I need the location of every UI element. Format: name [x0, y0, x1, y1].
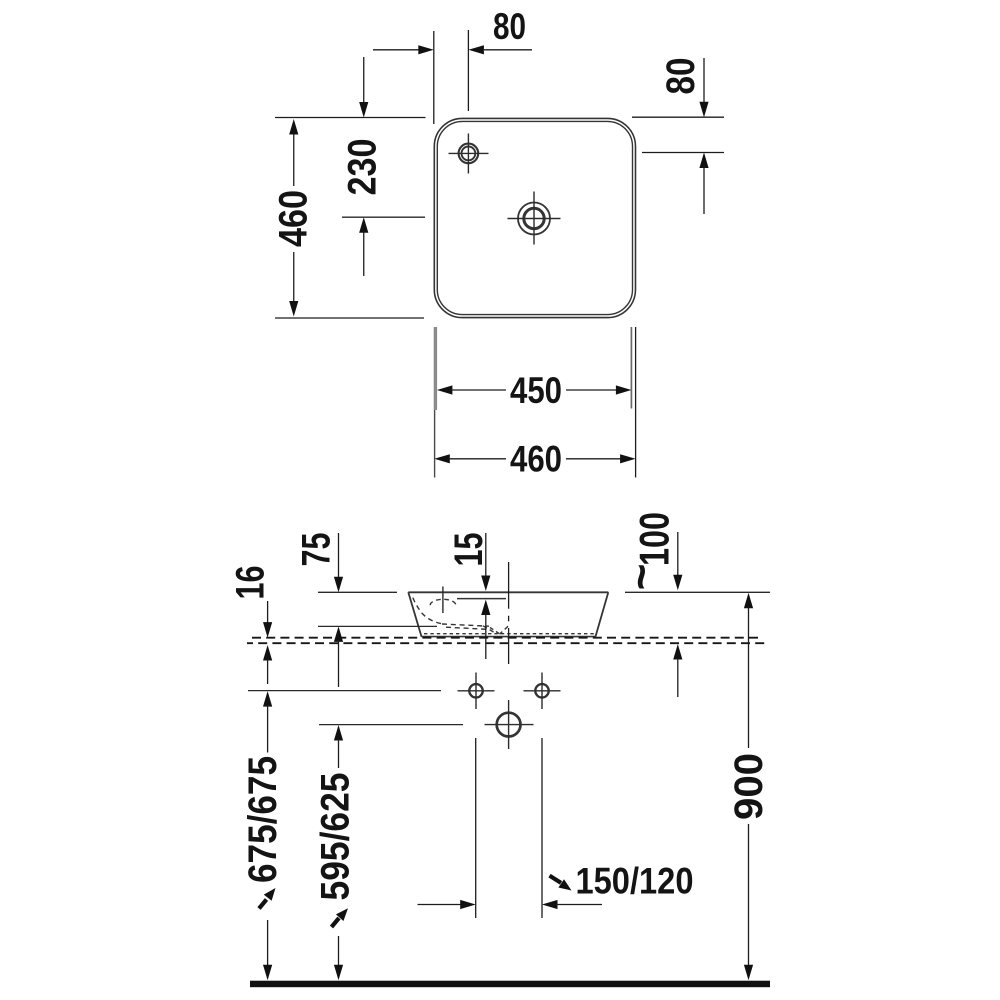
- drain outlet circle: [497, 713, 521, 737]
- svg-text:80: 80: [493, 6, 526, 47]
- dim 16: lower arrowhead: [263, 645, 272, 661]
- faucet hole outer circle: [459, 144, 479, 164]
- faucet hole centerline vertical: [442, 587, 444, 614]
- svg-text:900: 900: [727, 753, 771, 820]
- dim 460 left: upper line: [293, 133, 295, 186]
- svg-text:450: 450: [510, 370, 562, 411]
- dim 80 top: left segment: [373, 49, 419, 51]
- dim 675/675: upper arrowhead: [263, 691, 272, 707]
- dim 80 right: lower arrowhead: [699, 153, 708, 169]
- hidden base seam dotted line: [424, 633, 595, 635]
- extension line basin bottom edge: [275, 317, 424, 319]
- fixing holes level reference line: [248, 690, 441, 692]
- drain outer circle: [518, 203, 550, 235]
- svg-text:675/675: 675/675: [241, 756, 285, 883]
- svg-text:460: 460: [510, 439, 562, 480]
- dim 150/120: left arrowhead: [460, 900, 476, 909]
- dim 230: drain axis reference line: [342, 216, 425, 218]
- dim 80 right: lower line: [703, 167, 705, 215]
- rim level reference line right: [625, 591, 770, 593]
- dim 150/120: right arrowhead: [542, 900, 558, 909]
- dim 80 right: extension line faucet level: [642, 152, 724, 154]
- dim 460 bottom: right arrowhead: [620, 454, 636, 463]
- svg-text:75: 75: [295, 533, 339, 567]
- dim 75: upper arrowhead: [334, 577, 343, 593]
- left fixing hole circle: [469, 684, 482, 697]
- hidden drain funnel dashed mid: [490, 628, 499, 634]
- dim 16: upper line: [267, 601, 269, 624]
- dim 900: upper line: [748, 607, 750, 748]
- dim 595/625: lower line: [338, 936, 340, 966]
- dim 460 bottom: left segment: [449, 458, 507, 460]
- hidden drain funnel dashed left: [483, 626, 497, 634]
- svg-text:15: 15: [447, 533, 491, 567]
- faucet hole inner circle: [462, 147, 476, 161]
- svg-text:80: 80: [659, 58, 703, 95]
- drain inner circle: [524, 208, 544, 228]
- dim 230: lower line: [363, 231, 365, 276]
- countertop underside dashed line: [247, 642, 767, 644]
- basin inner rim outline: [437, 121, 632, 314]
- dim 150/120: left segment: [418, 904, 462, 906]
- drain hole level reference line: [319, 724, 463, 726]
- extension lines below basin right: [630, 327, 632, 409]
- dim 595/625: upper arrowhead: [334, 725, 343, 741]
- dim 675/675: lower arrowhead: [263, 965, 272, 981]
- dim 900: lower line: [748, 824, 750, 966]
- dim ~100: upper line: [677, 532, 679, 576]
- dim 450: right arrowhead: [616, 385, 632, 394]
- dim 80 right: upper arrowhead: [699, 102, 708, 118]
- basin profile bottom edge: [422, 636, 596, 638]
- dim 450: left segment: [451, 389, 506, 391]
- dim 595/625: variability arrow: [332, 918, 340, 927]
- dim 15: lower arrowhead: [481, 600, 490, 616]
- svg-text:460: 460: [272, 190, 316, 247]
- left hole extension line down: [475, 738, 477, 918]
- right fixing hole circle: [535, 684, 548, 697]
- svg-text:~: ~: [615, 564, 667, 591]
- dim 460 left: lower line: [293, 252, 295, 302]
- dim 16: upper arrowhead: [263, 622, 272, 638]
- hidden bowl contour dashed curve: [413, 598, 441, 624]
- hidden faucet hole dashed circle: [430, 599, 456, 605]
- dim 75: lower line: [338, 641, 340, 688]
- dim 15: upper arrowhead: [481, 576, 490, 592]
- drain centerline dash-dot: [508, 562, 510, 664]
- floor line: [250, 981, 770, 988]
- hidden bowl bottom dashed line upper: [442, 624, 489, 626]
- dim 230: upper line: [363, 57, 365, 103]
- svg-text:230: 230: [341, 139, 385, 196]
- svg-text:595/625: 595/625: [314, 773, 358, 901]
- basin profile right wall: [596, 592, 609, 636]
- dim 150/120: right segment: [556, 904, 602, 906]
- dim 80 top: right arrowhead: [418, 45, 434, 54]
- dim 675/675: variability arrow: [259, 900, 267, 909]
- dim ~100: upper arrowhead: [673, 575, 682, 591]
- dim 675/675: lower line: [267, 920, 269, 966]
- dim 80 right: extension line basin top: [632, 116, 724, 118]
- extension line basin top edge: [275, 117, 426, 119]
- dim 450: left arrowhead: [437, 385, 453, 394]
- dim 450: right segment: [566, 389, 617, 391]
- basin outer outline: [434, 118, 635, 317]
- extension lines below basin left: [434, 327, 437, 410]
- right hole extension line down: [541, 738, 543, 918]
- svg-text:16: 16: [229, 566, 273, 600]
- countertop surface dashed line: [252, 637, 762, 639]
- faucet hole crosshair: [449, 134, 489, 174]
- inner bottom reference line: [318, 625, 437, 627]
- dim 460 bottom: right segment: [566, 458, 622, 460]
- svg-text:150/120: 150/120: [576, 861, 694, 902]
- dim 675/675: upper line: [267, 705, 269, 753]
- dim 595/625: upper line: [338, 739, 340, 768]
- dim 75: lower arrowhead: [334, 626, 343, 642]
- dim 75: upper line: [338, 533, 340, 578]
- dim ~100: lower arrowhead: [673, 644, 682, 660]
- drain crosshair: [508, 192, 561, 245]
- svg-text:100: 100: [631, 512, 678, 566]
- extension line faucet axis: [467, 30, 469, 111]
- dim 80 top: left arrowhead: [468, 45, 484, 54]
- dim 16: lower line: [267, 659, 269, 684]
- dim ~100: lower line: [677, 658, 679, 697]
- dim 460 bottom: left arrowhead: [434, 454, 450, 463]
- dim 80 right: upper line: [703, 58, 705, 103]
- right fixing hole crosshair: [524, 673, 561, 710]
- extension line basin left edge: [433, 31, 435, 124]
- dim 230: upper arrowhead: [359, 102, 368, 118]
- dim 230: lower arrowhead: [359, 217, 368, 233]
- basin profile left wall: [408, 592, 421, 636]
- dim 460 left: upper arrowhead: [289, 119, 298, 135]
- rim level reference line left: [318, 591, 397, 593]
- basin profile top edge: [408, 591, 608, 593]
- hidden bowl bottom dashed line lower: [446, 627, 489, 629]
- left fixing hole crosshair: [458, 673, 495, 710]
- dim 900: upper arrowhead: [744, 593, 753, 609]
- dim 15: lower line: [485, 614, 487, 660]
- dim 900: lower arrowhead: [744, 965, 753, 981]
- dim 460 left: lower arrowhead: [289, 301, 298, 317]
- hidden drain funnel dashed right: [500, 626, 509, 634]
- drain outlet crosshair: [485, 700, 534, 749]
- dim 15: upper line: [485, 533, 487, 577]
- dim 595/625: lower arrowhead: [334, 965, 343, 981]
- dim 80 top: right segment: [484, 49, 532, 51]
- inner deck edge line: [457, 598, 506, 600]
- dim 150/120: variability arrow: [550, 876, 562, 883]
